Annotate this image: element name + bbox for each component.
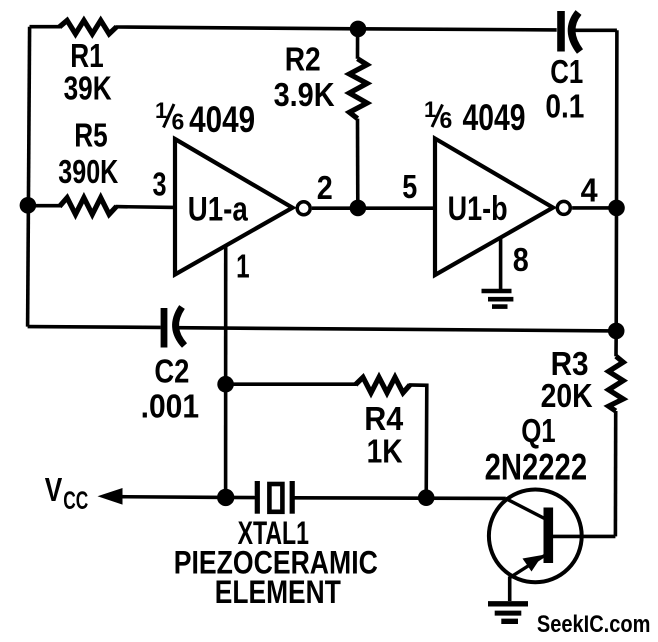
node dot (R4 / XTAL row) — [418, 489, 435, 506]
wire U1-b output to right rail — [572, 206, 616, 210]
capacitor C2 — [164, 307, 185, 348]
wire Vcc arrow shaft — [120, 495, 226, 499]
node dot (R2 top) — [350, 21, 367, 38]
wire C2 row right — [177, 328, 617, 331]
wire top-left segment — [30, 25, 61, 29]
svg-text:39K: 39K — [64, 70, 112, 107]
wire R2 bottom stub — [356, 119, 360, 208]
wire left rail — [28, 27, 30, 327]
wire input row left — [28, 204, 61, 208]
svg-text:ELEMENT: ELEMENT — [215, 574, 341, 610]
svg-text:CC: CC — [63, 487, 88, 515]
resistor R1 — [60, 20, 117, 34]
svg-text:R5: R5 — [74, 116, 108, 153]
node dot (pin1 / XTAL row) — [217, 489, 234, 506]
svg-text:1K: 1K — [367, 433, 403, 470]
svg-text:C1: C1 — [550, 53, 583, 90]
svg-text:SeekIC.com: SeekIC.com — [537, 611, 651, 638]
svg-text:1: 1 — [424, 97, 436, 122]
resistor R5 — [60, 198, 117, 215]
svg-text:6: 6 — [172, 109, 185, 135]
wire collector horizontal — [553, 535, 616, 539]
node dot (R2 bottom) — [350, 200, 367, 217]
wire top middle — [116, 27, 557, 30]
wire R3 to collector corner — [614, 411, 618, 536]
svg-text:20K: 20K — [541, 377, 593, 414]
svg-text:4049: 4049 — [463, 97, 526, 138]
ground (Q1 emitter) — [488, 604, 528, 622]
label 1/6 4049 (U1-a) — [155, 98, 255, 140]
svg-text:3.9K: 3.9K — [274, 76, 335, 113]
svg-text:Q1: Q1 — [521, 412, 556, 449]
node dot (C2 row / right rail) — [608, 323, 625, 340]
ground (U1-b pin 8) — [482, 291, 514, 307]
resistor R4 — [356, 377, 411, 393]
svg-text:5: 5 — [402, 168, 417, 205]
wire R2 top stub — [356, 29, 360, 59]
resistor R3 — [609, 356, 624, 411]
U1-b output bubble — [557, 201, 570, 214]
wire U1-b pin 8 vertical — [499, 238, 503, 289]
svg-text:1: 1 — [236, 247, 250, 284]
wire C2 row left — [28, 325, 161, 329]
wire C1 to top-right corner — [575, 28, 617, 32]
capacitor C1 — [561, 11, 580, 52]
U1-a output bubble — [297, 202, 310, 215]
svg-text:6: 6 — [440, 107, 453, 133]
wire R5 to U1-a input — [116, 205, 176, 209]
node dot (left rail / R5) — [20, 197, 37, 214]
crystal XTAL1 — [257, 481, 292, 514]
resistor R2 — [349, 59, 367, 119]
wire R4 row — [226, 382, 357, 386]
svg-text:2N2222: 2N2222 — [485, 446, 587, 487]
svg-text:U1-b: U1-b — [448, 190, 508, 228]
wire XTAL row right to transistor base — [294, 496, 506, 500]
op-amp U1-a (inverter triangle) — [175, 139, 293, 275]
wire right rail — [614, 30, 619, 356]
label Vcc — [45, 471, 89, 515]
wire XTAL row left — [226, 496, 255, 500]
svg-text:0.1: 0.1 — [545, 87, 584, 124]
Vcc arrowhead — [98, 488, 123, 505]
svg-text:8: 8 — [513, 241, 529, 278]
svg-text:R4: R4 — [364, 400, 404, 437]
wire R4 to corner and down — [409, 385, 427, 498]
svg-text:390K: 390K — [58, 153, 118, 190]
svg-text:4: 4 — [581, 171, 599, 208]
svg-text:.001: .001 — [141, 388, 200, 425]
svg-text:R1: R1 — [70, 37, 104, 74]
svg-text:3: 3 — [153, 166, 167, 203]
svg-text:C2: C2 — [154, 353, 189, 390]
svg-text:V: V — [45, 471, 63, 508]
svg-text:1: 1 — [155, 98, 167, 123]
wire transistor emitter to ground — [508, 577, 512, 602]
op-amp U1-b (inverter triangle) — [435, 139, 553, 276]
svg-text:U1-a: U1-a — [188, 190, 249, 228]
wire U1-a pin 1 vertical — [224, 245, 228, 498]
node dot (U1-b output / right rail) — [608, 200, 625, 217]
label 1/6 4049 (U1-b) — [424, 97, 526, 138]
wire U1-a output to U1-b input — [312, 206, 435, 210]
svg-text:2: 2 — [317, 169, 333, 206]
node dot (pin1 / R4 row) — [217, 376, 234, 393]
transistor Q1 — [489, 490, 582, 583]
svg-text:4049: 4049 — [189, 99, 255, 140]
svg-text:R2: R2 — [285, 40, 321, 77]
